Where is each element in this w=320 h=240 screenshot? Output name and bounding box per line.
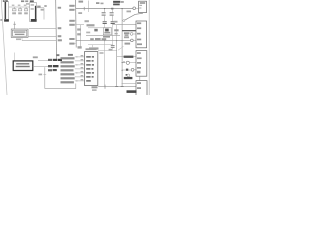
- pin stubs into U1: [75, 57, 85, 81]
- label x113 y20: [114, 21, 118, 23]
- wire down at x44: [43, 8, 45, 20]
- diode D1: [118, 46, 124, 50]
- capacitor C3: [111, 41, 115, 51]
- wire B1 out1: [38, 60, 48, 62]
- electrolytic cap E1: [122, 61, 136, 64]
- label near x44: [39, 74, 43, 76]
- top right text block: [113, 1, 124, 6]
- dark wire y30.7: [122, 30, 136, 32]
- wire stub R1: [13, 7, 15, 9]
- wire J5 to J6: [139, 76, 141, 80]
- capacitor C2: [110, 9, 115, 24]
- wire bus B right y24.7: [76, 24, 84, 26]
- bus B pin labels left: [69, 5, 74, 45]
- net label SPKR1: [48, 59, 52, 61]
- wire speaker top to bus: [29, 28, 56, 30]
- label 4.7k a: [77, 28, 81, 30]
- connector J2: [30, 3, 37, 22]
- wire to bus y40: [22, 40, 56, 42]
- label near wire y40: [16, 38, 21, 40]
- wire to battery box: [14, 53, 16, 61]
- net label VCC: [58, 7, 61, 9]
- label above wire y40: [124, 36, 129, 38]
- wire stub R3: [25, 7, 27, 9]
- switch SW1 pole: [123, 20, 125, 22]
- junction dot x122: [122, 8, 123, 9]
- label left of bottom wire: [92, 86, 98, 88]
- long wire y40.7: [76, 40, 130, 42]
- wire J1 bottom to speaker: [14, 22, 16, 30]
- label above wire a: [79, 1, 84, 3]
- label below X1: [103, 36, 110, 38]
- label right of J2: [37, 6, 40, 8]
- label J2: [30, 0, 34, 2]
- wire B1 out2: [33, 66, 48, 68]
- net label SPKR2: [48, 65, 52, 67]
- switch SW1 lever: [125, 13, 144, 20]
- label below dark wire: [124, 32, 129, 34]
- wire circle to J4: [133, 40, 136, 42]
- junction dot x112: [111, 8, 113, 10]
- wire cap to X1: [104, 24, 106, 28]
- junction tick x44: [43, 74, 46, 76]
- wire x122 down: [121, 9, 123, 87]
- net label top center-left: [21, 0, 29, 4]
- junction dot y40 x116: [116, 40, 117, 41]
- label left of P1: [125, 34, 129, 36]
- bus B label stubs: [75, 6, 77, 44]
- label x114 y33: [115, 33, 118, 35]
- net label PA2: [58, 35, 62, 37]
- label x77 y46: [78, 46, 82, 48]
- J5 pin labels: [137, 52, 142, 73]
- wire x80.6 down: [80, 25, 82, 47]
- pin circle P2: [131, 39, 134, 42]
- wire x104 down: [104, 41, 106, 51]
- electrolytic cap E3: [126, 74, 128, 76]
- power bus A: [55, 0, 58, 61]
- J4 pin labels: [137, 22, 142, 45]
- J2 inner pin marks: [31, 4, 34, 6]
- junction cross x116: [115, 86, 118, 88]
- wire P1 to J4: [133, 33, 136, 35]
- label below bus B: [78, 12, 82, 14]
- net label PA3: [58, 39, 62, 41]
- label dark y77: [124, 77, 133, 79]
- label below bottom wire: [92, 89, 97, 91]
- label above R1: [12, 5, 15, 6]
- wire y35.7: [86, 35, 120, 37]
- wire speaker bottom to bus: [28, 36, 56, 38]
- junction tick: [13, 23, 16, 25]
- IC U1: [85, 52, 98, 86]
- resistor R1: [12, 9, 16, 11]
- junction dot x104: [104, 8, 105, 9]
- wire y27.8: [88, 27, 103, 29]
- wire y24.7 right: [113, 24, 136, 26]
- labels above wire y40: [90, 38, 106, 40]
- label x90 y24: [87, 24, 95, 26]
- label R1 value: [12, 12, 16, 14]
- connector J5: [136, 51, 147, 77]
- connector J6: [136, 81, 147, 97]
- J3 labels: [139, 2, 145, 8]
- junction dot x122 y62: [122, 62, 123, 63]
- resistor R2: [18, 9, 21, 11]
- label R3 value: [24, 12, 28, 14]
- pin numbers U1: [81, 55, 84, 80]
- label ground: [92, 45, 94, 48]
- signal bus B: [75, 0, 78, 48]
- wire J2 right: [37, 7, 45, 9]
- label -1: [44, 5, 46, 7]
- connector J3: [139, 1, 147, 12]
- crystal X1: [103, 28, 111, 35]
- label x84 y20: [85, 20, 89, 22]
- resistor R3: [24, 9, 27, 11]
- label above wire b: [96, 2, 99, 4]
- wire x104 long down: [104, 51, 106, 87]
- component blob x96 y28: [94, 29, 97, 32]
- wire J1 to J2: [9, 6, 30, 8]
- U1 pin names: [86, 56, 94, 82]
- junction dot y40 x122: [122, 40, 123, 41]
- wire x88 top: [88, 1, 90, 13]
- wire P3 to J3: [136, 7, 139, 9]
- wire speaker drop: [21, 38, 23, 41]
- junction cross x122: [121, 86, 124, 88]
- wire y56.7: [117, 56, 136, 58]
- battery box B1: [13, 61, 33, 71]
- wire y44.7: [88, 44, 113, 46]
- label J1: [3, 0, 8, 2]
- label U1 title: [86, 48, 97, 50]
- speaker box SP1: [11, 29, 28, 37]
- wire y50.6: [98, 50, 117, 52]
- label above R3: [24, 5, 27, 6]
- label x114 y29: [114, 29, 118, 31]
- net labels column x60: [61, 57, 75, 83]
- label dark bottom right: [127, 90, 137, 93]
- net label SPKR3: [48, 69, 52, 71]
- label near SW1: [127, 11, 132, 13]
- wire bottom L: [45, 67, 76, 88]
- dark mark row y54 a: [56, 54, 59, 56]
- junction dot y40 x104: [104, 40, 105, 41]
- wire x116 upper: [116, 25, 118, 41]
- junction cross x105: [104, 85, 106, 89]
- connector J1: [4, 2, 9, 22]
- label above B1: [33, 56, 38, 58]
- label 4.7k b: [77, 33, 81, 35]
- sheet right border: [148, 0, 150, 95]
- label near C3: [109, 49, 112, 51]
- bottom wire y86.6: [98, 86, 136, 88]
- label above wire c: [101, 3, 104, 5]
- pin circle P3: [133, 7, 136, 10]
- sheet left border: [1, 0, 7, 95]
- dark mark row y54 b: [68, 54, 73, 56]
- wire x116 down: [116, 41, 118, 87]
- label above R2: [18, 5, 21, 6]
- J6 pin labels: [137, 82, 141, 89]
- wire stub R2: [19, 7, 21, 9]
- electrolytic cap E2: [122, 68, 136, 71]
- connector J4: [136, 21, 147, 48]
- label dark on wire y56: [124, 56, 134, 58]
- label left of J1 bottom: [0, 19, 2, 21]
- main top wire: [76, 8, 133, 10]
- capacitor C1: [102, 9, 107, 24]
- junction cross x84: [83, 7, 85, 10]
- wire into J6: [122, 82, 137, 84]
- label right of U1 top: [100, 52, 104, 54]
- junction dot x122 y70: [122, 70, 123, 71]
- pin circle P1: [130, 33, 133, 36]
- wire x112 mid: [112, 24, 114, 41]
- label C value: [41, 9, 44, 11]
- junction dots pin rows: [75, 56, 78, 81]
- label R2 value: [18, 12, 22, 14]
- label 4x ref: [125, 43, 131, 45]
- net label PA1: [58, 27, 62, 29]
